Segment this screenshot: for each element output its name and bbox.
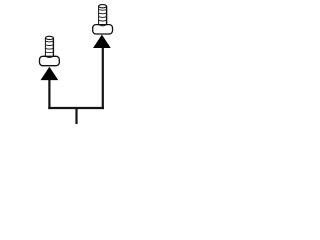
- screw terminal (right): bolt: [93, 5, 113, 34]
- wire: bottom rail: [48, 107, 104, 109]
- screw terminal (left): arrow: [41, 68, 57, 80]
- wire: left terminal down to bottom rail: [48, 80, 50, 110]
- screw terminal (left): bolt: [40, 36, 60, 65]
- wire: right terminal down to bottom rail: [102, 48, 104, 110]
- screw terminal (right): arrow: [94, 35, 110, 47]
- wire: stub from centre junction node downward: [75, 108, 77, 124]
